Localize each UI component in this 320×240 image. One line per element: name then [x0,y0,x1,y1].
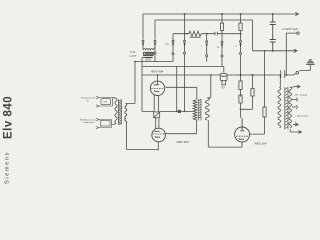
node pickup [285,74,287,76]
wire detector line y75 [142,73,296,75]
wire band wire y33.7 [173,33,241,35]
switch S2 contact d [239,34,241,75]
svg-text:~: ~ [295,120,297,124]
wire T1 secondary bottom to V2 cathode [127,124,159,150]
switch S1 contact MW [154,40,156,61]
svg-text:+ Netzanschl.: + Netzanschl. [295,114,309,117]
node grid line a [176,111,178,113]
switch S1 contact KW [142,40,144,49]
terminal arrow anode supply [293,12,299,15]
node x264.5 det [264,74,266,76]
svg-text:„WL“ Lautspr.: „WL“ Lautspr. [295,93,309,96]
resistor R3 box [239,14,242,34]
coil L1 with iron core [143,47,155,57]
coil L2 choke oval [220,73,227,80]
wire cathode rail y50.8 [253,50,292,52]
node R6 to grid chain [240,108,242,110]
node N3 [240,13,242,15]
svg-text:*Gl: *Gl [221,85,225,89]
switch S2 contact c [221,31,223,67]
svg-text:c=4207 4μF: c=4207 4μF [282,27,298,31]
resistor R2 box [220,14,223,31]
capacitor C2 grid blob [154,112,160,118]
node grid line b [184,111,186,113]
svg-text:rot: rot [86,99,89,102]
terminal arrow speaker bottom [297,131,302,134]
resistor R6 box [241,75,255,109]
terminal speaker tap 1 [292,98,297,101]
svg-text:m: m [217,46,219,49]
node x264.5 top [264,50,266,52]
wire top rail [143,13,293,15]
wire drop from rail B [154,20,156,40]
antenna input terminal 2 [96,118,114,128]
wire grid V1 y87.3 [166,87,197,99]
transformer T2 primary [193,100,197,120]
wire grid line y111.4 [142,110,193,112]
resistor R1 zigzag [189,31,202,36]
node x135 [134,61,136,63]
tube V3 output RES164 [235,118,250,147]
terminal circle detector out [296,71,299,74]
node S2a rail [184,13,186,15]
wire T2 secondary bottom [208,120,242,147]
detector Gl box [222,81,226,85]
svg-text:L.4TT: L.4TT [130,54,137,58]
wire rail B [155,19,253,21]
node N4 [240,74,242,76]
wire band common y61.6 [135,61,173,63]
wire V3 right to x264.5 [250,51,265,134]
tube V2 triode REN904 [152,118,166,150]
resistor R7 box [263,107,266,117]
wire drop rail B x252.5 [252,20,254,51]
switch S1 contact LW [172,34,174,62]
wire left riser x142 [142,58,144,112]
terminal circle pickup [297,32,299,34]
title Elv 840 [3,96,15,139]
svg-text:u.Erde grün: u.Erde grün [83,121,95,124]
wire S2a to R1 [185,33,189,35]
svg-text:RES 164: RES 164 [255,142,267,146]
svg-text:Elv 840: Elv 840 [3,96,15,139]
wire x135 to antenna coil [134,62,136,104]
terminal speaker top [290,85,300,88]
terminal speaker tap 3 arrow [293,123,298,126]
node N6 [272,13,274,15]
transformer T3 secondary [289,87,292,128]
svg-text:2002: 2002 [145,58,151,62]
transformer T1 secondary [125,103,135,123]
title Siemens [5,151,11,184]
wire left drop [142,14,144,40]
node N1 [240,33,242,35]
svg-text:REN 904: REN 904 [177,140,190,144]
transformer T1 core [118,100,121,125]
node N7 [272,50,274,52]
svg-text:Siemens: Siemens [5,151,11,184]
wire S2a riser to rail [184,14,186,34]
node S2a band [184,33,186,35]
capacitor C4 block [270,40,276,51]
transformer T2 core [198,99,201,121]
tube V1 triode REN904 [150,75,164,111]
node V1 anode [157,74,159,76]
capacitor C1 series [215,32,217,36]
resistor R4 box [239,75,242,97]
wire T2 secondary top [207,75,211,98]
wire y66.4 [142,66,224,72]
node N2 [221,13,223,15]
wire V2 anode right [165,120,196,134]
ground [299,60,314,71]
wire pickup tap x286.3 [286,33,297,75]
wire T3 primary top [279,75,281,87]
node N5 [252,74,254,76]
svg-text:Behelfsant.(o.C): Behelfsant.(o.C) [80,118,96,121]
antenna input terminal 1 [96,96,112,107]
svg-text:REN 904: REN 904 [151,70,164,74]
svg-text:K.W.: K.W. [130,50,136,54]
terminal speaker tap 2 [292,105,297,108]
transformer T3 primary [278,87,281,128]
switch S2 contact b [206,34,208,62]
capacitor C6 on grid line [178,110,181,113]
node T3 top [279,74,281,76]
switch S2 contact a [183,34,185,112]
transformer T1 primary [113,98,118,125]
wire drop x176.7 [176,66,178,111]
node T2 top [210,74,212,76]
wire T3 bottom out [290,129,296,132]
transformer T2 secondary [205,98,209,120]
capacitor C3 block [270,14,276,40]
capacitor C5 series [281,70,285,78]
terminal arrow heater [292,49,298,52]
resistor R5 box [239,95,242,118]
svg-text:Hochant.(m.C): Hochant.(m.C) [81,97,95,100]
resistor R1 slider bar [190,36,201,38]
transformer T3 core [285,87,288,130]
